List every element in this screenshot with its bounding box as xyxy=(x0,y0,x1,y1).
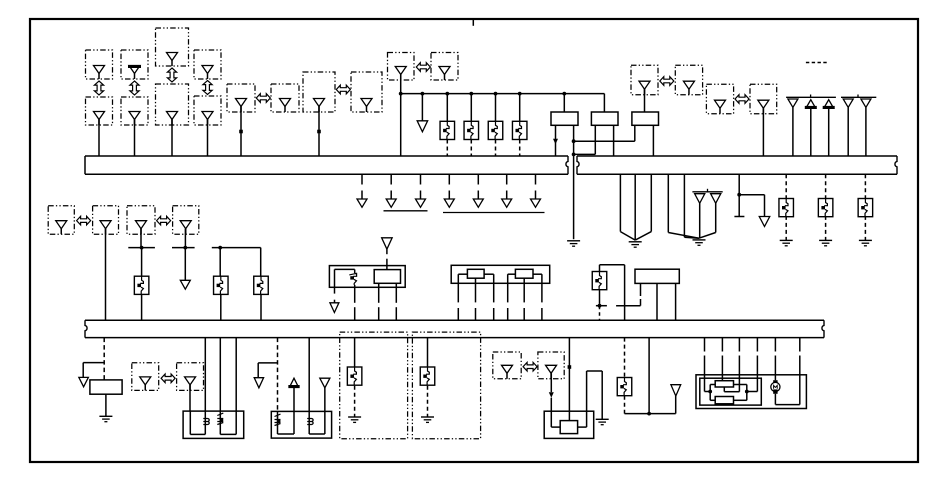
wire IT1 to ECU xyxy=(386,249,388,254)
connector block CB3 xyxy=(544,411,594,438)
arrester AR4 xyxy=(512,121,527,139)
bus bar B3 (lower) xyxy=(85,319,824,321)
connector pair P3 arrow (horizontal) xyxy=(161,374,175,383)
junction node x471 xyxy=(469,92,473,96)
junction node x422 xyxy=(421,92,425,96)
bus bar B2 (right segment) xyxy=(577,155,897,157)
connector pair P0 left dash box xyxy=(48,206,74,234)
connector pair P3 right triangle xyxy=(185,377,196,385)
T15 stem xyxy=(675,396,677,414)
connector P4 lower dash box xyxy=(194,96,221,125)
connector P2 lower dash box xyxy=(121,97,148,125)
connector pair P3 left dash box xyxy=(132,363,159,391)
connector P1 lower triangle xyxy=(94,112,105,120)
connector block CB1 xyxy=(183,411,244,438)
wire arrester AR1 to bus (dashed) xyxy=(446,140,448,157)
M2 pin3 wire xyxy=(675,283,677,320)
terminator T8 xyxy=(531,199,541,207)
connector pair PD right dash box xyxy=(675,65,702,94)
antenna AT1 wire xyxy=(792,107,794,156)
T14 stem xyxy=(324,388,326,412)
load box LB1 xyxy=(90,380,122,394)
connector pair P0b left dash box xyxy=(127,206,155,234)
wire arrester BR3 to ground (dashed) xyxy=(864,216,866,240)
CB4 lead 3 xyxy=(738,338,740,352)
motor pin square a xyxy=(773,380,777,384)
funnel F1 wire b xyxy=(634,174,636,240)
flow arrow on R1 pin1 xyxy=(553,139,558,145)
connector block CB4 xyxy=(696,375,806,409)
wire brk down xyxy=(738,195,740,217)
arrester AO1 xyxy=(347,367,362,385)
antenna AT3 wire xyxy=(828,108,830,156)
shield overline O3 xyxy=(841,96,876,98)
junction node x400 xyxy=(399,92,403,96)
U1 left leg stem xyxy=(334,300,336,303)
ground G5 xyxy=(819,239,832,241)
wire P1 to bus xyxy=(98,120,100,157)
connector pair PC left triangle xyxy=(395,67,406,75)
ground G7 xyxy=(99,415,112,417)
inter-system arrow A4 (vertical) xyxy=(203,81,212,95)
junction node x495 xyxy=(494,92,498,96)
U1 internal bracket xyxy=(334,269,336,287)
antenna triangle AT1 xyxy=(788,99,798,107)
arrester BR2 xyxy=(818,199,833,217)
M1 pin1 wire xyxy=(457,274,459,302)
wire module M2 drop xyxy=(640,283,642,296)
group underline U1 xyxy=(384,210,428,212)
funnel F1 wire c xyxy=(650,174,652,231)
connector P1 lower dash box xyxy=(86,97,113,125)
wire arrester BR1 to ground (dashed) xyxy=(785,216,787,240)
terminator T7 stem xyxy=(506,191,508,200)
option unit box OB1 xyxy=(340,332,408,439)
connector block CB2 xyxy=(271,411,331,438)
CB2 wire w4 xyxy=(324,411,326,434)
wire to arrester AR2 xyxy=(470,94,472,122)
U1 arrester leg wire xyxy=(354,285,356,303)
terminator T5 stub xyxy=(448,174,450,184)
terminator T7 xyxy=(502,199,512,207)
CB4 w3b xyxy=(738,375,740,392)
shield overline O1 xyxy=(692,191,722,193)
OB1 ground wire (dashed) xyxy=(354,386,356,417)
wire AL2 to bus xyxy=(220,294,222,320)
motor M xyxy=(771,382,780,391)
terminator T5 xyxy=(444,199,454,207)
connector P4 upper triangle xyxy=(202,66,213,74)
CB4 w1 xyxy=(704,375,706,392)
AM1 bottom wire xyxy=(599,290,601,304)
wire P0 to bus xyxy=(105,229,107,321)
terminator T11 xyxy=(330,303,339,313)
junction node x564 xyxy=(562,92,566,96)
antenna AT5 wire xyxy=(865,107,867,156)
terminator T6 xyxy=(473,199,483,207)
connector pair PE right dash box xyxy=(750,84,777,114)
bus bar B1 (left segment) xyxy=(85,155,568,157)
connector pair P4 arrow (horizontal) xyxy=(523,362,537,371)
branch wire x104 xyxy=(83,362,104,364)
connector pair PB left dash box xyxy=(303,72,335,112)
LB1 ground wire xyxy=(105,394,107,416)
connector pair PA right dash box xyxy=(271,84,299,112)
connector pair PE right triangle xyxy=(758,100,769,108)
connector pair PB arrow (horizontal) xyxy=(336,85,350,94)
manifold drop to R2 xyxy=(603,94,605,112)
AM1 top bracket xyxy=(599,265,601,272)
connector P3 upper dash box xyxy=(156,28,189,66)
terminator T10 xyxy=(180,280,190,289)
antenna AT4 wire xyxy=(847,107,849,156)
connector pair P0b left triangle xyxy=(136,221,147,229)
relay R2 xyxy=(591,112,618,125)
OB2 ground wire (dashed) xyxy=(427,386,429,417)
wire PA to bus xyxy=(240,107,242,157)
wire bus2 drop x104 (dashed) xyxy=(103,338,105,380)
connector pair P4 left triangle xyxy=(502,365,513,373)
dashed marker line xyxy=(806,62,828,64)
wire P4 to bus xyxy=(207,120,209,157)
junction dot N4 xyxy=(598,304,602,308)
terminator T2 stub xyxy=(361,174,363,184)
CB4 w3 xyxy=(756,375,758,392)
CB3 pin3 link xyxy=(586,411,588,427)
wire N2 down xyxy=(184,248,186,281)
wire bus2 drop x309 xyxy=(308,338,310,412)
wire n2 to R2 pin1 xyxy=(574,153,596,155)
CB1 coil symbol xyxy=(203,419,209,425)
ECU U1 box xyxy=(329,266,405,288)
wire R2 pin2 to bus xyxy=(613,125,615,156)
connector pair PD arrow (horizontal) xyxy=(660,77,674,86)
arrester AC1 xyxy=(617,378,632,396)
terminator arrow T1 xyxy=(417,121,428,132)
junction dot n1 xyxy=(572,139,576,143)
connector pair PB right triangle xyxy=(361,99,372,107)
arrester AO2 xyxy=(420,367,435,385)
connector pair PB right dash box xyxy=(351,72,382,112)
antenna AT2 wire xyxy=(810,108,812,156)
connector pair PA right triangle xyxy=(280,99,291,107)
ground G4 xyxy=(780,239,793,241)
connector P2 upper dash box xyxy=(121,50,148,79)
connector pair P4 left dash box xyxy=(493,352,521,379)
CB1 wire w2 xyxy=(204,338,206,435)
M1 pin3 wire xyxy=(493,274,495,302)
flow arrow P4 xyxy=(549,392,554,398)
junction square PA xyxy=(239,130,243,134)
connector P1 upper dash box xyxy=(86,50,113,79)
connector pair P0b arrow (horizontal) xyxy=(157,216,171,225)
ground G9 xyxy=(421,416,434,418)
wire P0b-a down xyxy=(140,229,142,248)
junction dot N1 xyxy=(140,246,144,250)
connector pair P4 right dash box xyxy=(538,352,564,379)
wire bus2 drop x569 xyxy=(568,338,570,421)
terminator T6 stem xyxy=(477,191,479,200)
CB4 lead 2 xyxy=(721,338,723,352)
M1b bracket xyxy=(508,273,516,275)
branch wire x277 xyxy=(258,362,277,364)
U1 inner module xyxy=(374,270,400,284)
connector P4 upper dash box xyxy=(194,50,221,79)
U1 module pin1 wire xyxy=(378,283,380,303)
wire P4 into CB3 xyxy=(550,398,552,412)
connector pair PE arrow (horizontal) xyxy=(735,95,749,104)
wire bus to arrester BR3 (dashed) xyxy=(864,174,866,199)
junction square PB xyxy=(317,130,321,134)
wire P3 to bus xyxy=(171,120,173,157)
wire bus2 drop x624 (dashed) xyxy=(624,338,626,379)
node stub N1 xyxy=(128,247,155,249)
CB4 lead 4 xyxy=(756,338,758,352)
terminator T4 stem xyxy=(420,191,422,200)
junction node x447 xyxy=(445,92,449,96)
arrester BR1 xyxy=(779,199,794,217)
antenna triangle AT2 (up) xyxy=(806,100,816,109)
CB2 loop1 bottom xyxy=(278,433,295,435)
junction dot N2 xyxy=(183,246,187,250)
CB4 dot2 links xyxy=(747,391,758,393)
wire P3 into CB1 xyxy=(189,385,191,411)
relay R3 xyxy=(632,112,659,125)
connector P1 upper triangle xyxy=(94,66,105,74)
M1 submodule a xyxy=(467,269,484,278)
connector P2 lower triangle xyxy=(129,112,140,120)
CB4 dot2 xyxy=(745,390,749,394)
wire arrester AR3 to bus (dashed) xyxy=(495,140,497,157)
terminator T14 xyxy=(320,378,330,388)
connector pair PA arrow (horizontal) xyxy=(256,94,270,103)
terminator T6 stub xyxy=(477,174,479,184)
wire brk drop xyxy=(764,195,766,217)
connector pair PC right triangle xyxy=(439,67,450,75)
wire to arrester AR3 xyxy=(495,94,497,122)
U1 internal arrester glyph xyxy=(353,273,356,285)
terminator T3 xyxy=(386,199,396,207)
CB4 w2 xyxy=(721,375,723,381)
wire R2 pin1 drop xyxy=(594,125,596,154)
group underline U2 xyxy=(443,212,545,214)
ground G1 xyxy=(567,240,580,242)
wire PE to bus xyxy=(762,108,764,156)
terminator T4 xyxy=(416,199,426,207)
wire x624 to bus xyxy=(624,306,626,321)
wire R3 pin2 to bus xyxy=(652,125,654,156)
ground G3 xyxy=(693,239,706,241)
arrow up AU1 xyxy=(289,378,298,387)
wire bus2 drop x277 (dashed) xyxy=(277,338,279,412)
wire P2 to bus xyxy=(134,120,136,157)
terminator arrow T1 stem xyxy=(421,94,423,121)
antenna triangle AT4 xyxy=(843,99,853,107)
CB1 sensor symbol xyxy=(217,413,223,425)
M2 pin2 wire xyxy=(656,283,658,320)
junction dot n2 xyxy=(572,153,576,157)
connector pair PA left dash box xyxy=(227,84,255,112)
ground G10 xyxy=(596,418,609,420)
motor wire xyxy=(774,375,776,380)
wire N4 to bus (dashed) xyxy=(599,306,601,321)
connector pair PD left triangle xyxy=(639,81,650,89)
CB4 inner unit xyxy=(700,378,762,405)
wire bus to arrester BR2 (dashed) xyxy=(825,174,827,199)
connector pair PC right dash box xyxy=(431,53,458,81)
CB4 lead 5 xyxy=(774,338,776,352)
terminator T7 stub xyxy=(506,174,508,184)
junction node x519 xyxy=(518,92,522,96)
CB4 relay coil RB xyxy=(715,397,733,404)
ground G8 xyxy=(348,416,361,418)
wire N3 right drop xyxy=(260,248,262,276)
connector pair P0 left triangle xyxy=(56,221,67,229)
connector pair P0 right dash box xyxy=(93,206,119,234)
wire PD to relay R3 xyxy=(644,89,646,112)
wire bus2 drop x649 xyxy=(648,338,650,414)
wire W-brk xyxy=(738,174,740,195)
M1a bracket xyxy=(458,273,467,275)
connector pair PC arrow (horizontal) xyxy=(416,63,430,72)
inter-system arrow A1 (vertical) xyxy=(94,81,103,95)
connector pair PE left dash box xyxy=(706,84,733,114)
CB1 wire w4 xyxy=(235,338,237,435)
connector pair PA left triangle xyxy=(236,99,247,107)
wire to arrester AR1 xyxy=(446,94,448,122)
wire R1 pin2 down xyxy=(573,125,575,239)
wire AL1 to bus xyxy=(141,294,143,320)
terminator T8 stem xyxy=(535,191,537,200)
CB3 pin1 link xyxy=(550,411,552,427)
CB4 dot1 links xyxy=(705,391,711,393)
connector P3 lower triangle xyxy=(167,112,178,120)
CB4 dot1 xyxy=(708,390,712,394)
wire arrester AR2 to bus (dashed) xyxy=(470,140,472,157)
border tick mark xyxy=(472,20,474,26)
connector P3 upper triangle xyxy=(167,53,178,61)
connector pair PD left dash box xyxy=(631,65,658,94)
arrester AR3 xyxy=(488,121,503,139)
M1 pin2 wire xyxy=(475,278,477,302)
CB4 relay coil RA xyxy=(715,381,733,387)
M1 pin6 wire xyxy=(541,274,543,302)
connector pair P3 right dash box xyxy=(177,363,204,391)
CB3 right bracket xyxy=(587,370,603,372)
shield triangle S2 stem xyxy=(715,202,717,233)
wire bus to arrester BR1 (dashed) xyxy=(785,174,787,199)
AC1 wire down (dashed) xyxy=(624,396,626,414)
wire N3 to arrester AL2 xyxy=(219,248,221,276)
M1 submodule b xyxy=(515,269,533,278)
terminator T3 stub xyxy=(390,174,392,184)
node wire N7 xyxy=(625,413,676,415)
shield triangle S1 stem xyxy=(699,202,701,238)
connector pair PC left dash box xyxy=(388,53,415,81)
M1 pin4 wire xyxy=(507,274,509,302)
funnel F2 wire a xyxy=(667,174,669,232)
wire AL3 to bus xyxy=(260,294,262,320)
connector P4 lower triangle xyxy=(202,112,213,120)
connector P3 lower dash box xyxy=(156,84,189,125)
wire R1 pin1 to bus xyxy=(555,125,557,156)
input triangle IT1 xyxy=(382,238,393,249)
terminator T5 stem xyxy=(448,191,450,200)
antenna triangle AT5 xyxy=(861,99,871,107)
antenna triangle AT3 (up) xyxy=(824,100,834,109)
connector pair P0 right triangle xyxy=(100,221,111,229)
arrester AL3 xyxy=(254,276,269,294)
CB1 wire w1 xyxy=(189,411,191,434)
CB1 loop2 bottom xyxy=(220,433,236,435)
terminator T13 xyxy=(254,378,263,388)
module box M1 xyxy=(451,265,550,283)
wire R3 pin1 drop xyxy=(634,125,636,141)
junction dot N3 xyxy=(218,246,222,250)
node wire N5 xyxy=(616,305,640,307)
node stub N4 xyxy=(596,305,607,307)
connector pair PE left triangle xyxy=(715,100,726,108)
shield triangle S1 xyxy=(695,194,705,204)
ground G6 xyxy=(859,239,872,241)
CB4 lead 1 xyxy=(704,338,706,352)
U1 left leg wire xyxy=(334,287,336,293)
M1 pin5 wire xyxy=(523,278,525,302)
manifold wire xyxy=(401,93,605,95)
CB1 wire w3 xyxy=(219,338,221,435)
CB2 coil symbol xyxy=(307,419,313,425)
connector pair P0b right dash box xyxy=(173,206,199,234)
terminator T12 xyxy=(79,377,89,386)
CB2 wire w2 xyxy=(293,411,295,434)
arrester AL1 xyxy=(134,276,149,294)
terminator T2 xyxy=(357,199,367,207)
CB1 loop1 bottom xyxy=(190,433,205,435)
node stub N2 xyxy=(172,247,195,249)
connector pair P4 right triangle xyxy=(546,365,557,373)
junction dot N7 xyxy=(647,412,651,416)
wire manifold to relay R1 xyxy=(563,94,565,112)
ground G2 xyxy=(629,241,642,243)
inter-system arrow A2 (vertical) xyxy=(130,81,139,95)
connector pair P0b right triangle xyxy=(180,221,191,229)
connector pair P0 arrow (horizontal) xyxy=(77,216,91,225)
wire PB to bus xyxy=(318,107,320,157)
option unit box OB2 xyxy=(412,332,480,439)
terminator T2 stem xyxy=(361,191,363,200)
AU1 stem xyxy=(293,388,295,412)
CB2 wire w3 xyxy=(308,411,310,434)
terminal bar TB1 xyxy=(734,216,744,218)
arrester BR3 xyxy=(858,199,873,217)
wire arrester BR2 to ground (dashed) xyxy=(825,216,827,240)
junction square N6 xyxy=(568,365,572,369)
arrester AR1 xyxy=(440,121,455,139)
wire P0b-b down xyxy=(184,229,186,248)
terminator T9 xyxy=(759,217,770,227)
wire brk right xyxy=(739,194,764,196)
terminator T3 stem xyxy=(390,191,392,200)
funnel F1 wire a xyxy=(619,174,621,231)
wire PC down xyxy=(400,75,402,157)
motor pin square b xyxy=(773,389,777,393)
relay R1 xyxy=(551,112,578,125)
connector pair PB left triangle xyxy=(314,99,325,107)
CB4 U bottom xyxy=(775,404,799,406)
wire N1 to arrester AL1 xyxy=(141,248,143,276)
connector pair PD right triangle xyxy=(683,81,694,89)
OB2 wire xyxy=(427,338,429,367)
